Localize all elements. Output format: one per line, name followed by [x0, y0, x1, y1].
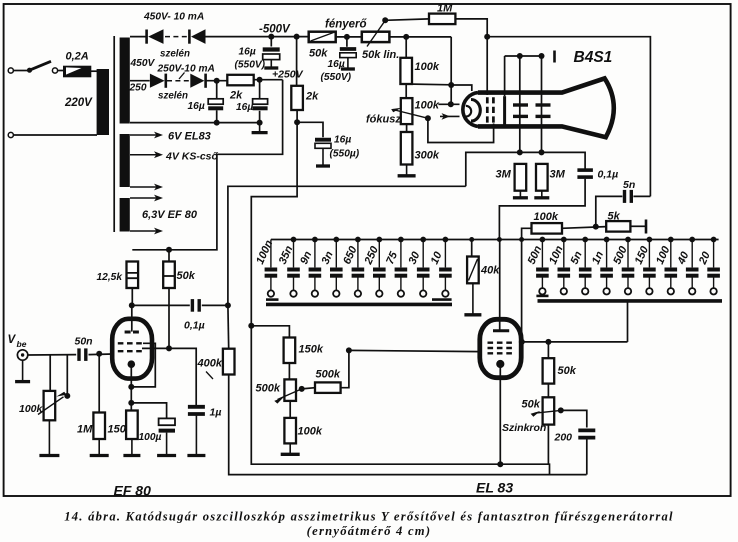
node EF80 anode: [129, 302, 135, 308]
wire terminal to switch: [13, 70, 28, 72]
wire deflection return line: [466, 152, 585, 186]
selenium diode D3 250V: [150, 74, 166, 88]
wire EF80 cathode down: [130, 366, 132, 411]
wire CRT cathode lead: [438, 103, 459, 105]
switch contact 100n: [268, 290, 274, 296]
ground 100u: [166, 433, 168, 456]
node 50k chain top: [545, 339, 551, 345]
input terminal Vbe: [17, 350, 27, 360]
wire 16u550V-b stem: [346, 37, 348, 47]
switch contact 250: [376, 290, 382, 296]
capacitor 30 left bank: [417, 268, 430, 272]
svg-text:3M: 3M: [496, 169, 512, 181]
capacitor 10 left bank: [439, 268, 452, 272]
ground 300k: [406, 165, 408, 176]
wire grid net to 5n column: [487, 37, 650, 197]
node rail left bank 650: [355, 237, 361, 243]
fuse F1 0,2A: [63, 66, 91, 78]
node rail right bank 20: [711, 237, 717, 243]
wire cap 75 to contact: [400, 277, 402, 290]
wire 50k lin output: [389, 36, 451, 38]
svg-text:100k: 100k: [415, 100, 440, 112]
wire 50k pot bottom: [547, 425, 549, 465]
svg-text:50k: 50k: [522, 399, 541, 411]
wire 50k top: [168, 250, 170, 262]
CRT control grid dashed electrode: [486, 97, 489, 123]
wire cap 250 to contact: [378, 277, 380, 290]
wire wiper to 200: [561, 410, 587, 427]
svg-text:szelén: szelén: [160, 49, 190, 60]
wire cap 5n stem right: [584, 240, 586, 268]
svg-text:50k lin.: 50k lin.: [362, 49, 399, 61]
switch contact 5n right: [582, 288, 588, 294]
resistor 2k smoothing: [227, 75, 253, 86]
electrolytic capacitor 16u 550u: [315, 140, 331, 149]
svg-text:Szinkron: Szinkron: [502, 422, 546, 434]
wire switch to fuse: [58, 70, 63, 72]
wire cap 1n stem right: [606, 240, 608, 268]
wire HV common rail: [130, 122, 260, 124]
ground brightness cap: [347, 58, 349, 69]
wire coupling right: [202, 304, 228, 306]
wire cap 5n to contact right: [584, 277, 586, 289]
resistor body 50k szinkron: [543, 397, 555, 424]
resistor 5k: [606, 221, 630, 232]
node 100k divider top: [403, 34, 409, 40]
node 3M b top: [539, 149, 545, 155]
node 5n tap: [593, 224, 599, 230]
wire selector drop: [627, 301, 629, 342]
node EL83 cathode bottom: [497, 461, 503, 467]
wire CRT electrode top bus: [505, 55, 542, 57]
wire plate 2 column: [541, 56, 543, 152]
selenium diode D2 450V: [189, 29, 205, 44]
resistor 100k timing: [532, 223, 563, 234]
node between 50k pots: [344, 34, 350, 40]
node +250V: [257, 77, 263, 83]
svg-text:4V KS-cső: 4V KS-cső: [165, 151, 219, 163]
node rail right bank 5n: [582, 237, 588, 243]
wire cap 100 stem right: [670, 240, 672, 268]
EF80 grid rows: [118, 342, 145, 344]
wire pot top drop: [49, 355, 51, 391]
EL83 tube envelope: [480, 319, 521, 377]
node rail right bank 10n: [561, 237, 567, 243]
wire cap 500 stem right: [627, 240, 629, 268]
capacitor 50n right bank: [536, 268, 549, 272]
wire cap 9n to contact: [314, 277, 316, 290]
resistor 12,5k tapped: [127, 262, 139, 289]
wire cap 40 stem right: [691, 240, 693, 268]
svg-text:100k: 100k: [415, 61, 440, 73]
wire cap 650 to contact: [357, 277, 359, 290]
wire -500V rail: [206, 36, 309, 38]
wire 5n right: [633, 195, 650, 197]
electrolytic capacitor 16u first: [208, 99, 223, 109]
wire cap 10n stem right: [563, 240, 565, 268]
wire suppressor loop: [131, 343, 155, 387]
node 3M a top: [517, 149, 523, 155]
wire cathode to 100u: [131, 403, 166, 418]
svg-text:40k: 40k: [480, 265, 500, 277]
svg-text:450V- 10 mA: 450V- 10 mA: [143, 12, 204, 23]
resistor 1M leak: [93, 413, 105, 440]
switch contact 30: [420, 290, 426, 296]
transformer primary winding: [97, 69, 109, 135]
wire 16u cap1 to common rail: [216, 110, 218, 122]
svg-text:50n: 50n: [75, 336, 93, 348]
resistor 100k sawtooth: [284, 418, 296, 444]
wire 50k bottom to screen line: [168, 288, 170, 348]
wire divider 124-132: [406, 124, 408, 132]
wire EL83 grid line: [349, 350, 481, 351]
wire timing rail: [271, 239, 719, 241]
wire cap 150 to contact right: [648, 277, 650, 289]
resistor 150 cathode: [126, 411, 138, 440]
svg-text:3M: 3M: [550, 169, 566, 181]
wire heater top entry: [451, 85, 472, 91]
wire sawtooth supply: [251, 122, 549, 474]
svg-text:1M: 1M: [77, 424, 93, 436]
svg-text:500k: 500k: [256, 383, 281, 395]
wire +250V feed path: [132, 80, 282, 250]
wire anode node left: [131, 304, 133, 306]
svg-text:150: 150: [108, 424, 127, 436]
wire grid feed drop: [521, 240, 523, 342]
node rail box: [497, 237, 502, 242]
wire plate 1 column: [519, 56, 521, 152]
switch contact 10: [442, 290, 448, 296]
wire supply branch from 2k bleeder: [296, 37, 298, 86]
resistor 100k divider upper: [400, 58, 412, 84]
svg-text:100µ: 100µ: [139, 432, 162, 443]
wire 500k pot to 100k: [289, 401, 291, 418]
svg-text:fókusz: fókusz: [366, 114, 401, 126]
wire wiper drop: [66, 355, 68, 396]
capacitor 500 right bank: [622, 268, 635, 272]
node coupling out: [225, 302, 231, 308]
wire EF80 anode up: [131, 305, 133, 331]
right bank selector bar: [538, 299, 723, 303]
wire 100k to 5k: [562, 227, 606, 229]
wire 16u cap1 stem: [216, 81, 218, 99]
switch contact 100 right: [668, 288, 674, 294]
wire 200 bottom: [586, 440, 588, 475]
wire screen bypass to 1u: [195, 347, 197, 349]
wire lower terminal to transformer: [13, 134, 97, 136]
svg-text:(550µ): (550µ): [330, 149, 360, 160]
svg-text:-500V: -500V: [259, 24, 291, 36]
svg-text:14. ábra. Katódsugár oszcillos: 14. ábra. Katódsugár oszcilloszkóp asszi…: [64, 510, 674, 524]
ground 40k: [472, 283, 474, 315]
ground 1M leak: [98, 439, 100, 456]
wire cap 10 stem: [444, 240, 446, 268]
CRT cathode arc: [471, 100, 480, 122]
svg-text:5n: 5n: [623, 179, 635, 191]
wire cap 35n to contact: [293, 277, 295, 290]
svg-text:50k: 50k: [558, 365, 577, 377]
wire 50k to 50k lin: [336, 36, 362, 38]
wire cap 10 to contact: [444, 277, 446, 290]
wire cap 30 stem: [422, 240, 424, 268]
svg-text:(ernyőátmérő 4 cm): (ernyőátmérő 4 cm): [307, 524, 432, 538]
wire 500k to grid line: [341, 350, 349, 387]
node input wiper: [64, 393, 70, 399]
wire 5k right stub: [630, 225, 645, 227]
capacitor 9n left bank: [309, 268, 322, 272]
svg-text:0,1µ: 0,1µ: [184, 320, 205, 332]
node cathode feed: [448, 82, 454, 88]
node fokusz wiper: [425, 115, 431, 121]
switch contact 9n: [312, 290, 318, 296]
node grid line EL83: [346, 347, 352, 353]
capacitor 650 left bank: [352, 268, 365, 272]
wire 100k bottom to cathode line: [406, 83, 451, 86]
svg-text:12,5k: 12,5k: [97, 272, 124, 283]
EF80 anode bar: [125, 331, 139, 334]
wire 0,1u bottom to box rail: [499, 179, 585, 239]
svg-text:100k: 100k: [534, 211, 559, 223]
resistor body 100k fokusz: [401, 98, 413, 124]
capacitor 20 right bank: [707, 268, 720, 272]
wire 100k left to rail: [522, 228, 532, 239]
node rail right bank 500: [625, 237, 631, 243]
svg-text:250: 250: [129, 83, 147, 94]
wire cap 150 stem right: [648, 240, 650, 268]
transformer core: [113, 36, 115, 232]
wire branch to 150k: [251, 326, 289, 338]
wire cap 9n stem: [314, 240, 316, 268]
switch lever: [30, 61, 52, 70]
EL83 anode bar: [493, 329, 509, 332]
wire cap 250 stem: [378, 240, 380, 268]
wire 1M leak top: [98, 354, 100, 413]
wire wiper to 1M: [385, 19, 429, 20]
CRT deflection plate pair 1: [513, 103, 528, 106]
CRT heater lead with arrow: [440, 115, 460, 117]
capacitor 5n: [623, 190, 626, 203]
wire EL83 anode to rail: [499, 239, 501, 331]
node rail right bank 40: [689, 237, 695, 243]
node screen line: [166, 345, 172, 351]
node rail left bank 35n: [291, 237, 297, 243]
mains terminal upper: [8, 68, 13, 73]
node 50k top: [166, 247, 172, 253]
svg-text:+250V: +250V: [272, 69, 304, 81]
resistor 300k divider lower: [401, 132, 413, 165]
node cathode RC: [128, 400, 134, 406]
switch contact 150 right: [646, 288, 652, 294]
ground 3M right: [541, 191, 543, 198]
CRT unconnected pin stub: [553, 51, 556, 63]
node szinkron wiper: [558, 407, 564, 413]
node rail right bank 150: [647, 237, 653, 243]
filament tap arrow 6V EL83: [130, 134, 158, 136]
svg-text:(550V): (550V): [235, 60, 266, 71]
filament winding lower arrow: [130, 186, 158, 188]
svg-text:100k: 100k: [19, 403, 44, 415]
switch contact 75: [398, 290, 404, 296]
resistor 2k bleeder: [291, 86, 303, 110]
node cap1 on rail: [214, 120, 220, 126]
node suppressor to cathode: [128, 384, 134, 390]
svg-text:EL 83: EL 83: [476, 480, 513, 496]
capacitor 75 left bank: [395, 268, 408, 272]
svg-text:450V: 450V: [130, 58, 156, 69]
node rail right bank 100: [668, 237, 674, 243]
wire 5n left: [596, 196, 623, 226]
wire 50k to pot: [547, 384, 549, 398]
switch contact 650: [355, 290, 361, 296]
wire grid line: [28, 354, 76, 356]
svg-text:B4S1: B4S1: [574, 49, 613, 66]
CRT anode electrode: [503, 96, 506, 126]
wire wiper to 500k res: [302, 388, 315, 389]
electrolytic capacitor 100u cathode: [159, 418, 175, 430]
switch contact 3n: [333, 290, 339, 296]
capacitor 3n left bank: [330, 268, 343, 272]
ground 1u: [195, 415, 197, 456]
ground 3M left: [519, 191, 521, 198]
wire 1M to CRT grid net: [455, 19, 487, 37]
svg-text:16µ: 16µ: [334, 135, 351, 146]
wire 16u cap2 stem: [259, 80, 261, 99]
resistor body 500k pot: [284, 379, 296, 401]
resistor body 100k input: [44, 391, 56, 420]
wire screen line: [142, 348, 196, 406]
node rail left bank 9n: [312, 237, 318, 243]
ground 100k input: [48, 420, 50, 455]
wire 2k bleeder down: [296, 110, 298, 122]
node electrode bus b: [539, 53, 545, 59]
wire cathode feed vertical: [450, 37, 452, 104]
node rail left bank 30: [420, 237, 426, 243]
wire cap 50n to contact right: [541, 277, 543, 289]
wire cap 100n to contact: [270, 277, 272, 290]
node rail right bank 1n: [604, 237, 610, 243]
EL83 grid rows: [488, 342, 515, 344]
capacitor 200: [578, 428, 595, 432]
wire 16u cap2 to rail: [259, 111, 261, 123]
svg-text:0,2A: 0,2A: [66, 51, 89, 63]
svg-text:6V EL83: 6V EL83: [168, 131, 211, 143]
wire 400k bottom and return line: [229, 375, 587, 475]
wire cap 75 stem: [400, 240, 402, 268]
svg-text:EF 80: EF 80: [114, 483, 152, 499]
transformer HV secondary winding: [120, 38, 130, 124]
node rail right bank 50n: [540, 237, 546, 243]
svg-text:250V-10 mA: 250V-10 mA: [157, 64, 215, 75]
node cap2 ground on rail: [257, 120, 263, 126]
resistor 3M right: [536, 164, 548, 191]
CRT B4S1 envelope: [478, 78, 614, 137]
wire fuse to transformer: [91, 70, 97, 72]
wire divider 84-98: [405, 84, 407, 98]
resistor 500k feedback: [315, 382, 341, 393]
svg-text:500k: 500k: [316, 369, 341, 381]
svg-text:50k: 50k: [309, 48, 328, 60]
svg-text:50k: 50k: [177, 270, 196, 282]
svg-text:szelén: szelén: [158, 91, 188, 102]
resistor body 40k: [467, 257, 479, 284]
wire divider 37-58: [405, 37, 407, 58]
svg-text:220V: 220V: [64, 97, 93, 109]
node cathode lead junction: [448, 101, 454, 107]
svg-text:100k: 100k: [298, 426, 323, 438]
wire 2k to +250V node: [254, 79, 283, 81]
svg-text:2k: 2k: [229, 90, 243, 102]
capacitor 16u 550V at brightness node: [340, 49, 356, 58]
node 50k lin wiper to 1M: [382, 17, 388, 23]
node EL83 grid right: [519, 339, 525, 345]
wire 16u550V stem: [270, 37, 272, 47]
resistor 150k: [284, 338, 296, 364]
capacitor 35n left bank: [287, 268, 300, 272]
switch contact 50n right: [539, 288, 545, 294]
wire cap 20 to contact right: [713, 277, 715, 289]
node 500k wiper: [299, 386, 305, 392]
capacitor 50n: [77, 348, 80, 361]
wire to 16u 550u cap: [297, 122, 323, 137]
wire cap 100 to contact right: [670, 277, 672, 289]
dashed wire between D1 and D2: [165, 36, 189, 38]
resistor 400k: [223, 349, 235, 375]
capacitor 1n right bank: [600, 268, 613, 272]
wire 12,5k bottom: [131, 288, 133, 305]
wire cap 35n stem: [293, 240, 295, 268]
wire D4 to 2k: [206, 80, 228, 82]
svg-text:16µ: 16µ: [239, 47, 256, 58]
switch pivot: [27, 68, 32, 73]
capacitor 100 right bank: [665, 268, 678, 272]
switch contact 40 right: [689, 288, 695, 294]
node 250V rectifier output: [214, 78, 220, 84]
wire 50k top: [547, 342, 549, 358]
switch contact 1n right: [603, 288, 609, 294]
wire cap 3n stem: [335, 240, 337, 268]
ground Vbe: [22, 360, 24, 381]
switch output terminal: [52, 68, 57, 73]
svg-text:300k: 300k: [415, 150, 440, 162]
potentiometer 50k lin: [362, 21, 390, 47]
wire grid net down to CRT g1: [486, 37, 488, 95]
capacitor 0,1u coupling: [191, 299, 194, 312]
wire EL83 grid right line: [522, 341, 628, 343]
EF80 tube envelope: [112, 319, 152, 379]
node rail left bank 75: [398, 237, 404, 243]
CRT heater arc: [466, 106, 471, 117]
wire 450V winding to diode D1: [130, 36, 147, 38]
switch contact 35n: [290, 290, 296, 296]
EF80 cathode dot: [128, 360, 136, 368]
400k pointer tick: [206, 372, 213, 380]
svg-text:(550V): (550V): [321, 72, 352, 83]
node 2k bleeder bottom: [294, 119, 300, 125]
5k output pin stub: [645, 220, 648, 234]
svg-text:16µ: 16µ: [188, 101, 205, 112]
wire cap 3n to contact: [335, 277, 337, 290]
wire EL83 cathode down: [499, 367, 501, 464]
electrolytic capacitor 16u second: [253, 99, 268, 109]
wire anode to top wire: [504, 56, 506, 96]
node rail left bank 3n: [333, 237, 339, 243]
selenium diode D1 450V: [147, 29, 164, 44]
resistor 50k screen tapped: [163, 262, 175, 289]
svg-text:2k: 2k: [305, 91, 319, 103]
szelen pointer tick: [179, 73, 185, 80]
capacitor 40 right bank: [686, 268, 699, 272]
node rail 40k: [469, 237, 474, 242]
